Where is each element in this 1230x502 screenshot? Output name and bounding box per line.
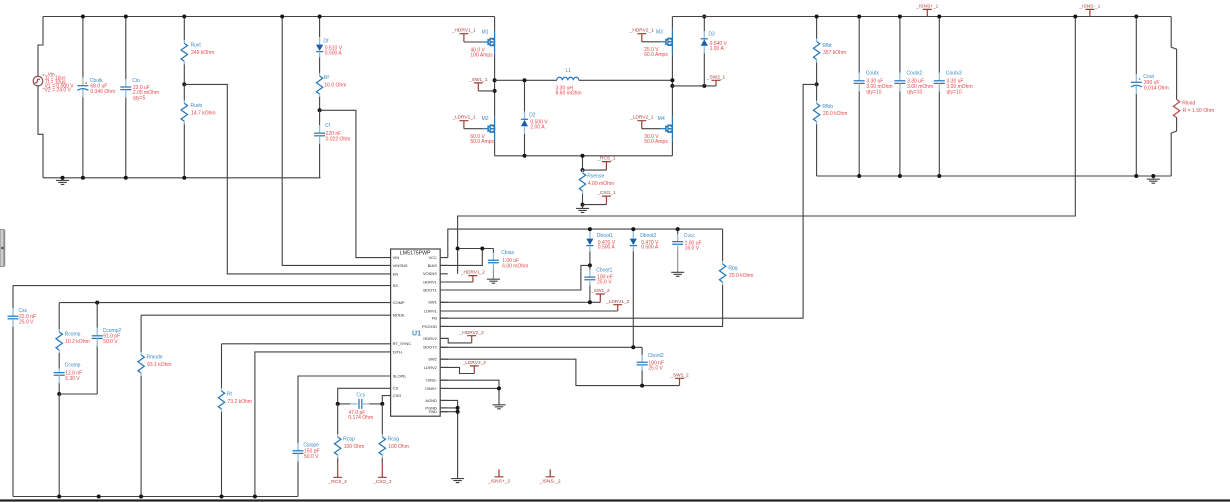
net label _SW1_1 xyxy=(478,90,494,92)
capacitor Coutx3 xyxy=(938,17,940,73)
capacitor Ccs xyxy=(338,403,350,405)
net label _ISNS-_2 xyxy=(546,469,555,476)
svg-text:_HDRV2_2: _HDRV2_2 xyxy=(459,330,485,336)
svg-text:Cboot2: Cboot2 xyxy=(648,353,664,359)
capacitor Coutx xyxy=(858,17,860,73)
svg-text:0.022 Ohm: 0.022 Ohm xyxy=(326,136,351,142)
ground input xyxy=(56,180,69,184)
wire Rpg bottom to PGOOD xyxy=(440,285,722,326)
svg-text:_HDRV1_1: _HDRV1_1 xyxy=(451,28,477,34)
wire VOUT sense down to BIAS/VOSNS xyxy=(458,17,1076,274)
svg-text:LDRV1: LDRV1 xyxy=(424,308,438,313)
svg-text:HDRV1: HDRV1 xyxy=(423,279,437,284)
resistor Rsense xyxy=(582,156,584,170)
svg-text:Ruvb: Ruvb xyxy=(191,103,203,109)
svg-text:D3: D3 xyxy=(708,31,715,37)
capacitor Coutx2 xyxy=(899,17,901,73)
wire M2 gate xyxy=(464,128,483,130)
svg-text:_SW1_1: _SW1_1 xyxy=(468,77,488,83)
svg-text:AGND: AGND xyxy=(425,398,437,403)
wire VIN pin feed xyxy=(320,110,391,257)
svg-text:2.00 A: 2.00 A xyxy=(530,124,545,130)
wire M2 source xyxy=(494,141,496,156)
svg-text:Rmode: Rmode xyxy=(147,354,163,360)
wire input bottom rail xyxy=(43,177,321,179)
node ISNS xyxy=(497,386,501,390)
svg-text:ISNS+: ISNS+ xyxy=(425,386,437,391)
svg-text:25.0 V: 25.0 V xyxy=(597,280,612,286)
wire M3 source to SW2 xyxy=(671,54,673,116)
svg-text:VCC: VCC xyxy=(428,255,437,260)
resistor Ruvt xyxy=(183,17,185,41)
wire LDRV1 pin xyxy=(440,310,618,312)
resistor Rmode xyxy=(140,315,142,352)
svg-text:_ISNS-_2: _ISNS-_2 xyxy=(539,478,561,484)
pin stubs U1 right side xyxy=(440,258,448,412)
node CS xyxy=(336,402,340,406)
node PGND xyxy=(456,406,460,410)
wire EN feed from divider to chip xyxy=(184,84,390,274)
svg-text:M1: M1 xyxy=(482,30,489,36)
svg-text:Rcsg: Rcsg xyxy=(388,436,400,442)
svg-text:25.0 V: 25.0 V xyxy=(648,366,663,372)
node CSG xyxy=(380,402,384,406)
svg-text:ISNS-: ISNS- xyxy=(426,378,437,383)
wire M3 drain from output rail xyxy=(671,17,673,30)
wire Vin source bottom lead xyxy=(38,86,43,178)
voltage source Vin xyxy=(33,72,74,94)
resistor Rcsg xyxy=(381,404,383,434)
diode D2 xyxy=(524,80,526,111)
svg-text:qty=5: qty=5 xyxy=(133,96,146,102)
wire AGND pin xyxy=(440,400,457,478)
wire ISNS- pin xyxy=(440,380,499,388)
inductor L1 xyxy=(557,77,579,80)
wire M1 drain xyxy=(494,17,496,30)
svg-text:357 kOhm: 357 kOhm xyxy=(823,50,846,56)
svg-text:Rfbb: Rfbb xyxy=(822,104,833,110)
wire CS pin xyxy=(338,388,391,404)
op-amp U1 LM5175PWP body xyxy=(391,249,441,416)
node Rf-Cf junction xyxy=(318,108,322,112)
svg-text:Css: Css xyxy=(18,308,27,314)
node SW2 inductor junction xyxy=(670,78,674,82)
svg-text:CSG: CSG xyxy=(393,393,402,398)
resistor Rcap xyxy=(337,404,339,434)
node BOOT1 xyxy=(588,263,592,267)
transistor M2 xyxy=(494,116,496,141)
svg-text:0.014 Ohm: 0.014 Ohm xyxy=(1144,86,1169,92)
svg-text:BOOT1: BOOT1 xyxy=(423,287,437,292)
wire COMP pin xyxy=(59,302,390,304)
diode Df xyxy=(319,17,321,38)
svg-text:_ISNS-_1: _ISNS-_1 xyxy=(1079,4,1101,10)
svg-text:qty=10: qty=10 xyxy=(907,89,922,95)
svg-text:SS: SS xyxy=(393,283,399,288)
svg-text:VINSNS: VINSNS xyxy=(393,263,408,268)
svg-text:Rt: Rt xyxy=(227,391,233,397)
node SW1 stub junction xyxy=(493,89,497,93)
wire MODE pin to Rmode xyxy=(141,314,391,316)
capacitor Cout xyxy=(1135,17,1137,75)
svg-text:Rcomp: Rcomp xyxy=(65,331,81,337)
svg-text:Dboot2: Dboot2 xyxy=(640,233,656,239)
wire analog ground bus xyxy=(13,496,298,498)
svg-text:LDRV2: LDRV2 xyxy=(424,365,438,370)
node BIAS junction xyxy=(480,247,484,251)
svg-text:10.0 Ohm: 10.0 Ohm xyxy=(324,82,346,88)
svg-text:100 Amps: 100 Amps xyxy=(470,52,493,58)
svg-text:Cslope: Cslope xyxy=(303,443,319,449)
svg-text:_LDRV2_2: _LDRV2_2 xyxy=(462,360,487,366)
wire Vin source top lead xyxy=(38,17,43,77)
capacitor Cin xyxy=(125,17,127,80)
svg-text:Cin: Cin xyxy=(132,78,140,84)
svg-text:Ccs: Ccs xyxy=(356,392,365,398)
node BOOT2 xyxy=(631,345,635,349)
svg-text:D2: D2 xyxy=(529,113,536,119)
wire BOOT1 pin xyxy=(440,265,590,290)
ground U1 AGND xyxy=(451,479,464,483)
wire HDRV2 pin xyxy=(440,338,472,343)
wire comp network to ground bus xyxy=(58,394,60,497)
svg-text:14.7 kOhm: 14.7 kOhm xyxy=(191,110,215,116)
svg-text:SW1: SW1 xyxy=(428,300,437,305)
wire PGND pin xyxy=(440,407,457,409)
node input ground junction xyxy=(61,176,65,180)
svg-text:R = 1.50 Ohm: R = 1.50 Ohm xyxy=(1183,108,1214,114)
svg-text:Rfbt: Rfbt xyxy=(822,43,832,49)
node PAD xyxy=(456,410,460,414)
resistor Rt xyxy=(221,344,223,388)
capacitor Cboot1 xyxy=(589,265,591,269)
wire CSG pin xyxy=(382,396,390,404)
node COMP xyxy=(95,301,99,305)
svg-text:V2 = 24.0 V: V2 = 24.0 V xyxy=(45,87,72,93)
svg-text:qty=10: qty=10 xyxy=(947,89,962,95)
svg-text:1.00 A: 1.00 A xyxy=(710,46,725,52)
svg-text:Cf: Cf xyxy=(325,123,331,129)
svg-text:L1: L1 xyxy=(566,68,572,74)
resistor Rpg xyxy=(722,229,724,261)
svg-text:Ruvt: Ruvt xyxy=(191,42,202,48)
svg-text:60.0 Amps: 60.0 Amps xyxy=(644,52,668,58)
svg-text:_RCS_2: _RCS_2 xyxy=(328,479,347,485)
wire BOOT2 pin xyxy=(440,346,642,348)
svg-text:Cout: Cout xyxy=(1143,74,1154,80)
wire M4 source xyxy=(671,141,673,156)
svg-text:PAD: PAD xyxy=(429,409,437,414)
node SW1_2 xyxy=(588,300,592,304)
svg-text:_SW1_2: _SW1_2 xyxy=(590,288,610,294)
transistor M1 xyxy=(494,30,496,55)
svg-text:Rsense: Rsense xyxy=(587,173,604,179)
net label _RCS_1 xyxy=(583,169,607,171)
wire ISNS+ pin xyxy=(440,388,499,404)
ground ISNS xyxy=(493,405,506,409)
svg-text:LM5175PWP: LM5175PWP xyxy=(400,250,431,256)
wire FB sense to chip xyxy=(440,84,816,318)
svg-text:_CSG_2: _CSG_2 xyxy=(372,479,392,485)
node VOSNS junction xyxy=(456,247,460,251)
svg-text:COMP: COMP xyxy=(393,300,405,305)
wire SW1 pin xyxy=(440,301,600,303)
svg-text:CS: CS xyxy=(393,386,399,391)
transistor M3 xyxy=(671,29,673,54)
wire M4 gate xyxy=(642,128,661,130)
svg-text:0.340 Ohm: 0.340 Ohm xyxy=(90,89,115,95)
wire HDRV1 pin xyxy=(440,281,473,283)
svg-text:_LDRV2_1: _LDRV2_1 xyxy=(629,115,654,121)
svg-text:50.0 Amps: 50.0 Amps xyxy=(470,139,494,145)
svg-text:_RCS_1: _RCS_1 xyxy=(596,156,615,162)
svg-text:Coutx2: Coutx2 xyxy=(907,70,923,76)
svg-text:EN: EN xyxy=(393,271,399,276)
diode Dboot1 xyxy=(589,229,591,239)
svg-text:Dboot1: Dboot1 xyxy=(597,233,613,239)
node SW1 xyxy=(493,78,497,82)
svg-text:VIN: VIN xyxy=(393,255,400,260)
svg-text:SW2: SW2 xyxy=(428,357,437,362)
wire LDRV2 pin xyxy=(440,367,474,373)
wire canvas bottom border xyxy=(0,499,1230,501)
svg-text:Rcap: Rcap xyxy=(343,436,355,442)
svg-text:Coutx3: Coutx3 xyxy=(946,70,962,76)
wire DITH pin to ground bus xyxy=(255,352,391,497)
node FB divider xyxy=(815,82,819,86)
svg-text:_SW2_2: _SW2_2 xyxy=(669,372,689,378)
svg-text:RT_SYNC: RT_SYNC xyxy=(393,341,412,346)
svg-text:6.30 V: 6.30 V xyxy=(65,376,80,382)
wire SW2 pin xyxy=(440,359,679,385)
wire M1 gate xyxy=(464,41,483,43)
wire SW2 node to D3 and stub xyxy=(672,85,716,87)
node RCS_1 xyxy=(581,168,585,172)
svg-text:MODE: MODE xyxy=(393,313,405,318)
svg-text:16.0 V: 16.0 V xyxy=(685,246,700,252)
svg-text:DITH: DITH xyxy=(393,349,402,354)
capacitor Cbulk xyxy=(82,17,84,78)
svg-text:_ISNS+_2: _ISNS+_2 xyxy=(487,478,510,484)
net label _CSG_2 xyxy=(378,462,387,477)
svg-text:20.0 kOhm: 20.0 kOhm xyxy=(823,111,847,117)
svg-text:6.00 mOhm: 6.00 mOhm xyxy=(502,263,528,269)
wire output top rail VOUT xyxy=(672,16,1171,18)
panel handle widget xyxy=(0,230,5,267)
wire M3 gate xyxy=(642,41,661,43)
ground Cvcc xyxy=(671,272,684,276)
node CSG_1 xyxy=(581,203,585,207)
svg-text:BOOT2: BOOT2 xyxy=(423,345,437,350)
net label _CSG_1 xyxy=(583,204,607,206)
wire VINSNS feed xyxy=(282,17,390,266)
svg-text:_ISNS+_1: _ISNS+_1 xyxy=(915,4,938,10)
resistor Rcomp xyxy=(58,303,60,329)
wire SS pin to Css xyxy=(13,286,391,309)
resistor Rload xyxy=(1171,17,1176,100)
wire M1 source to SW1 xyxy=(494,55,496,117)
svg-text:U1: U1 xyxy=(412,330,421,337)
svg-text:Rload: Rload xyxy=(1182,100,1195,106)
wire SLOPE pin to Cslope xyxy=(298,376,391,443)
svg-text:93.1 kOhm: 93.1 kOhm xyxy=(147,362,171,368)
capacitor Ccomp2 xyxy=(96,303,98,328)
svg-text:_LDRV1_2: _LDRV1_2 xyxy=(605,299,630,305)
resistor Rfbb xyxy=(816,84,818,100)
svg-text:M3: M3 xyxy=(656,29,663,35)
svg-text:0.174 Ohm: 0.174 Ohm xyxy=(348,415,373,421)
capacitor Css xyxy=(12,308,14,316)
wire L1 to SW2 xyxy=(579,79,673,81)
node SW2 xyxy=(670,84,674,88)
resistor Ruvb xyxy=(183,84,185,100)
svg-text:_HDRV2_1: _HDRV2_1 xyxy=(629,28,655,34)
net label _RCS_2 xyxy=(333,462,342,477)
pin labels U1 right side xyxy=(422,255,438,414)
node UVLO divider junction xyxy=(182,82,186,86)
svg-text:Cbias: Cbias xyxy=(501,250,514,256)
diode Dboot2 xyxy=(632,229,634,239)
svg-text:Cvcc: Cvcc xyxy=(684,233,696,239)
diode D3 xyxy=(703,17,705,32)
svg-text:249 kOhm: 249 kOhm xyxy=(191,50,214,56)
svg-text:0.500 A: 0.500 A xyxy=(641,245,659,251)
svg-text:50.0 V: 50.0 V xyxy=(304,454,319,460)
svg-text:100 Ohm: 100 Ohm xyxy=(388,444,409,450)
transistor M4 xyxy=(671,116,673,141)
svg-text:25.0 V: 25.0 V xyxy=(19,319,34,325)
wire SW1 node rail xyxy=(495,79,557,81)
wire BIAS pin xyxy=(440,249,482,266)
resistor Rf xyxy=(319,58,321,74)
svg-text:SLOPE: SLOPE xyxy=(393,373,407,378)
capacitor Cboot2 xyxy=(641,347,643,355)
ground Rsense xyxy=(576,208,589,212)
svg-text:VOSNS: VOSNS xyxy=(423,271,437,276)
svg-text:Cboot1: Cboot1 xyxy=(596,267,612,273)
svg-text:qty=10: qty=10 xyxy=(866,89,881,95)
svg-text:_LDRV1_1: _LDRV1_1 xyxy=(451,115,476,121)
wire VCC pin to VCC bus xyxy=(448,229,723,258)
ground output xyxy=(1147,179,1160,183)
svg-text:50.0 Amps: 50.0 Amps xyxy=(644,139,668,145)
svg-text:Df: Df xyxy=(323,39,329,45)
resistor Rfbt xyxy=(816,17,818,39)
svg-text:0.500 A: 0.500 A xyxy=(598,245,616,251)
svg-text:_CSG_1: _CSG_1 xyxy=(596,190,616,196)
svg-text:0.500 A: 0.500 A xyxy=(325,50,343,56)
svg-text:PGOOD: PGOOD xyxy=(422,324,437,329)
svg-text:M4: M4 xyxy=(658,116,665,122)
svg-text:73.2 kOhm: 73.2 kOhm xyxy=(228,399,252,405)
node comp network bottom xyxy=(57,392,61,396)
svg-text:Rf: Rf xyxy=(324,75,330,81)
svg-text:FB: FB xyxy=(432,316,437,321)
capacitor Cbias xyxy=(492,249,494,253)
svg-text:4.00 mOhm: 4.00 mOhm xyxy=(588,181,614,187)
svg-text:50.0 V: 50.0 V xyxy=(103,339,118,345)
svg-text:BIAS: BIAS xyxy=(428,263,437,268)
wire output bottom rail xyxy=(817,175,1172,177)
capacitor Cf xyxy=(319,110,321,125)
capacitor Cslope xyxy=(297,443,299,451)
wire comp network bottom join xyxy=(59,393,97,395)
svg-text:8.60 mOhm: 8.60 mOhm xyxy=(556,91,582,97)
node SW2_2 xyxy=(640,384,644,388)
svg-text:Coutx: Coutx xyxy=(866,70,880,76)
capacitor Cvcc xyxy=(677,229,679,234)
wire input top rail VIN xyxy=(43,16,495,18)
capacitor Ccomp xyxy=(58,369,60,373)
svg-text:10.2 kOhm: 10.2 kOhm xyxy=(65,339,89,345)
ground Cbias xyxy=(487,279,500,283)
svg-text:_SW2_1: _SW2_1 xyxy=(706,74,726,80)
svg-text:M2: M2 xyxy=(482,116,489,122)
svg-text:20.0 kOhm: 20.0 kOhm xyxy=(729,273,753,279)
svg-text:HDRV2: HDRV2 xyxy=(423,336,437,341)
net label _ISNS+_2 xyxy=(495,469,504,476)
wire VOSNS-BIAS-Cbias bus xyxy=(458,248,494,250)
wire PAD pin xyxy=(440,411,457,413)
wire RT_SYNC pin to Rt xyxy=(222,343,391,345)
svg-text:Rpg: Rpg xyxy=(728,265,737,271)
svg-text:_HDRV1_2: _HDRV1_2 xyxy=(460,270,486,276)
svg-text:100 Ohm: 100 Ohm xyxy=(344,444,365,450)
pin labels U1 left side xyxy=(393,255,412,398)
svg-text:Ccomp: Ccomp xyxy=(65,363,81,369)
wire power stage bottom rail xyxy=(495,155,673,157)
